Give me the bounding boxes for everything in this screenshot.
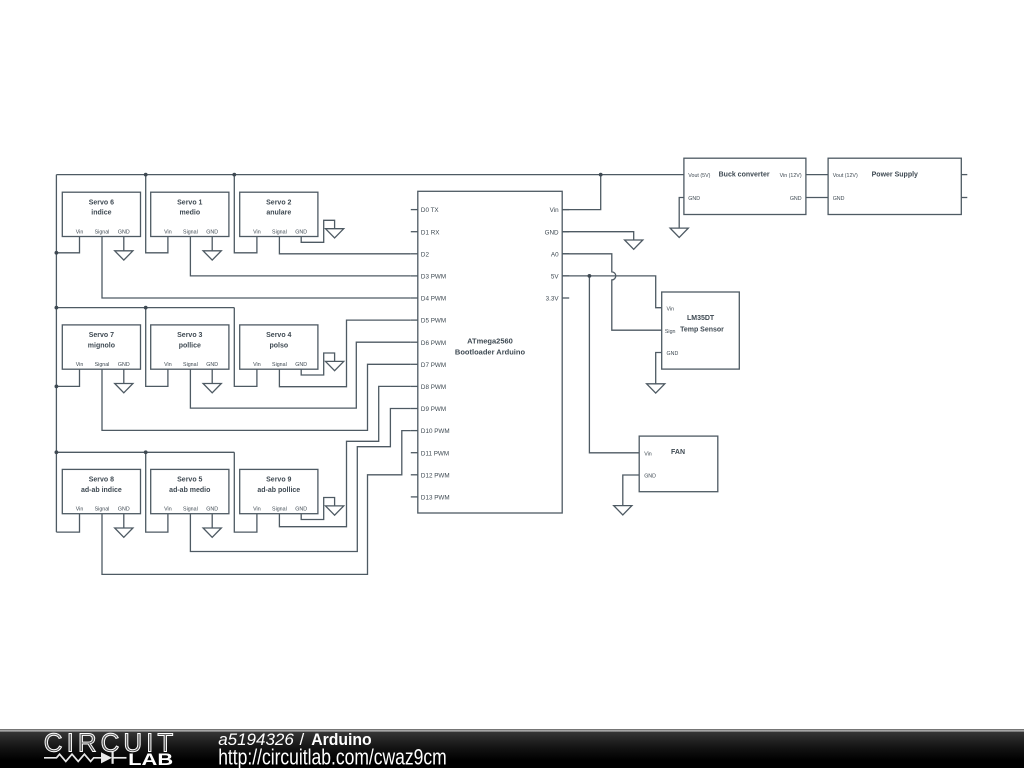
wire Servo4 Signal to D5 bbox=[279, 320, 410, 387]
wire top bus to ATmega Vin bbox=[562, 175, 601, 210]
svg-text:Servo 5: Servo 5 bbox=[177, 477, 202, 484]
svg-text:indice: indice bbox=[91, 210, 111, 217]
svg-text:LAB: LAB bbox=[128, 750, 173, 768]
wire Servo2 Signal to D2 bbox=[279, 237, 410, 254]
wire left 5V rail bbox=[55, 175, 57, 532]
svg-text:FAN: FAN bbox=[671, 449, 685, 456]
svg-text:D0 TX: D0 TX bbox=[421, 207, 440, 214]
svg-text:Signal: Signal bbox=[272, 229, 287, 235]
svg-text:D6 PWM: D6 PWM bbox=[421, 340, 446, 347]
servo SV7 "Servo 7 mignolo" bbox=[62, 325, 140, 369]
svg-text:Vout (5V): Vout (5V) bbox=[688, 173, 710, 179]
svg-text:GND: GND bbox=[833, 196, 845, 202]
svg-text:Signal: Signal bbox=[183, 362, 198, 368]
svg-text:mignolo: mignolo bbox=[88, 342, 115, 349]
svg-text:Servo 8: Servo 8 bbox=[89, 477, 114, 484]
footer title "a5194326 / Arduino" bbox=[218, 730, 372, 749]
svg-text:Servo 2: Servo 2 bbox=[266, 199, 291, 206]
fan M1 FAN bbox=[639, 436, 718, 492]
svg-text:Vin: Vin bbox=[644, 451, 652, 457]
svg-text:D4 PWM: D4 PWM bbox=[421, 296, 446, 303]
svg-text:GND: GND bbox=[206, 229, 218, 235]
wire Servo9 Signal to D8 bbox=[279, 386, 410, 526]
wire Servo5 Signal to D9 bbox=[190, 409, 410, 552]
ground SV6 bbox=[115, 251, 133, 260]
junction top bus / ATmega Vin bbox=[599, 173, 603, 177]
svg-text:GND: GND bbox=[790, 196, 802, 202]
wire row2 Vin bus bbox=[56, 307, 234, 309]
wire SV5 GND stub bbox=[211, 514, 213, 528]
svg-text:GND: GND bbox=[118, 507, 130, 513]
wire Buck GND to PSU GND bbox=[806, 197, 828, 199]
ground SV5 bbox=[203, 528, 221, 537]
svg-text:GND: GND bbox=[545, 229, 559, 236]
svg-text:Vin: Vin bbox=[253, 507, 261, 513]
svg-text:Vin (12V): Vin (12V) bbox=[780, 173, 802, 179]
wire Servo6 Vin to rail bbox=[56, 237, 79, 253]
svg-text:Servo 7: Servo 7 bbox=[89, 332, 114, 339]
wire Servo7 Vin to rail bbox=[56, 369, 79, 386]
servo SV5 "Servo 5 ad-ab medio" bbox=[151, 469, 229, 513]
svg-text:D7 PWM: D7 PWM bbox=[421, 362, 446, 369]
buck converter U3 bbox=[684, 158, 806, 214]
svg-text:Sign: Sign bbox=[665, 329, 676, 335]
svg-text:D3 PWM: D3 PWM bbox=[421, 274, 446, 281]
svg-text:ad-ab pollice: ad-ab pollice bbox=[257, 487, 300, 494]
svg-text:Vin: Vin bbox=[253, 229, 261, 235]
servo SV8 "Servo 8 ad-ab indice" bbox=[62, 469, 140, 513]
wire Buck Vin to PSU Vout bbox=[806, 174, 828, 176]
junction rail / row3 bus bbox=[55, 450, 59, 454]
svg-text:Vin: Vin bbox=[76, 362, 84, 368]
svg-text:http://circuitlab.com/cwaz9cm: http://circuitlab.com/cwaz9cm bbox=[218, 745, 447, 768]
svg-text:Signal: Signal bbox=[183, 507, 198, 513]
wire 5V branch to FAN Vin bbox=[589, 276, 639, 453]
servo SV6 "Servo 6 indice" bbox=[62, 192, 140, 236]
svg-text:Signal: Signal bbox=[183, 229, 198, 235]
svg-text:Signal: Signal bbox=[95, 362, 110, 368]
svg-text:Servo 6: Servo 6 bbox=[89, 199, 114, 206]
svg-text:LM35DT: LM35DT bbox=[687, 315, 715, 322]
svg-text:Bootloader Arduino: Bootloader Arduino bbox=[455, 348, 526, 357]
CircuitLab logo bbox=[44, 727, 174, 769]
servo SV3 "Servo 3 pollice" bbox=[151, 325, 229, 369]
wire Servo6 Signal to D4 bbox=[102, 237, 411, 299]
ground SV2 bbox=[326, 229, 344, 238]
junction rail / row2 bus bbox=[55, 306, 59, 310]
svg-text:Vin: Vin bbox=[76, 229, 84, 235]
wire Servo2 Vin to top bus bbox=[234, 175, 257, 253]
svg-text:Vin: Vin bbox=[76, 507, 84, 513]
ground SV7 bbox=[115, 384, 133, 393]
junction row2 bus / Servo3 Vin bbox=[144, 306, 148, 310]
svg-text:5V: 5V bbox=[551, 274, 560, 281]
svg-text:Servo 9: Servo 9 bbox=[266, 477, 291, 484]
wire Buck GND bbox=[679, 198, 684, 229]
junction rail / Servo6 Vin bbox=[55, 251, 59, 255]
ground LM35 bbox=[647, 384, 665, 393]
svg-text:Vin: Vin bbox=[667, 306, 675, 312]
svg-text:Signal: Signal bbox=[272, 507, 287, 513]
svg-text:D10 PWM: D10 PWM bbox=[421, 428, 450, 435]
ground SV1 bbox=[203, 251, 221, 260]
ground SV9 bbox=[326, 506, 344, 515]
svg-text:Signal: Signal bbox=[272, 362, 287, 368]
svg-text:Vin: Vin bbox=[164, 507, 172, 513]
wire SV2 GND staircase bbox=[301, 220, 334, 242]
svg-text:A0: A0 bbox=[551, 251, 559, 258]
svg-text:Servo 4: Servo 4 bbox=[266, 332, 291, 339]
svg-text:D11 PWM: D11 PWM bbox=[421, 450, 449, 457]
svg-text:ATmega2560: ATmega2560 bbox=[467, 336, 513, 345]
svg-text:GND: GND bbox=[295, 229, 307, 235]
svg-text:Temp Sensor: Temp Sensor bbox=[680, 327, 724, 334]
svg-text:Vin: Vin bbox=[550, 207, 559, 214]
wire Servo7 Signal to D7 bbox=[102, 364, 411, 430]
svg-text:3.3V: 3.3V bbox=[546, 296, 560, 303]
wire Servo3 Signal to D6 bbox=[190, 342, 410, 408]
svg-text:ad-ab indice: ad-ab indice bbox=[81, 487, 122, 494]
power supply PS1 bbox=[828, 158, 967, 214]
servo SV9 "Servo 9 ad-ab pollice" bbox=[240, 469, 318, 513]
junction 5V / FAN branch bbox=[588, 274, 592, 278]
junction top bus / Servo1 Vin bbox=[144, 173, 148, 177]
svg-text:D12 PWM: D12 PWM bbox=[421, 472, 450, 479]
wire LM35 GND bbox=[656, 353, 662, 384]
svg-text:Power Supply: Power Supply bbox=[872, 172, 918, 179]
wire Servo3 Vin to row2 bus bbox=[146, 308, 168, 387]
wire Servo4 Vin to row2 bus bbox=[234, 308, 257, 387]
svg-text:pollice: pollice bbox=[179, 342, 201, 349]
wire A0 to LM35 Sign with hop bbox=[562, 254, 662, 330]
wire Servo1 Signal to D3 bbox=[190, 237, 410, 276]
junction row3 bus / Servo5 Vin bbox=[144, 450, 148, 454]
svg-text:D5 PWM: D5 PWM bbox=[421, 318, 446, 325]
svg-text:GND: GND bbox=[295, 362, 307, 368]
svg-text:GND: GND bbox=[688, 196, 700, 202]
svg-text:D2: D2 bbox=[421, 251, 430, 258]
svg-text:Servo 1: Servo 1 bbox=[177, 199, 202, 206]
svg-text:Vin: Vin bbox=[164, 229, 172, 235]
wire Servo8 Vin to rail end bbox=[56, 514, 79, 532]
ground SV4 bbox=[326, 361, 344, 370]
wire SV6 GND stub bbox=[123, 237, 125, 251]
temp sensor U2 LM35DT bbox=[662, 292, 740, 369]
svg-text:Buck converter: Buck converter bbox=[719, 172, 770, 179]
ATmega2560 U1 Bootloader Arduino bbox=[411, 191, 569, 513]
svg-text:Servo 3: Servo 3 bbox=[177, 332, 202, 339]
wire SV4 GND staircase bbox=[301, 353, 334, 375]
servo SV4 "Servo 4 polso" bbox=[240, 325, 318, 369]
servo SV2 "Servo 2 anulare" bbox=[240, 192, 318, 236]
wire SV8 GND stub bbox=[123, 514, 125, 528]
svg-text:anulare: anulare bbox=[266, 210, 291, 217]
svg-text:GND: GND bbox=[295, 507, 307, 513]
ground SV3 bbox=[203, 384, 221, 393]
junction rail / Servo7 Vin bbox=[55, 385, 59, 389]
wire SV7 GND stub bbox=[123, 369, 125, 383]
wire SV3 GND stub bbox=[211, 369, 213, 383]
wire Servo9 Vin to row3 bus bbox=[234, 452, 257, 532]
ground Buck bbox=[670, 228, 688, 237]
svg-text:GND: GND bbox=[118, 229, 130, 235]
wire 5V to LM35 Vin bbox=[562, 276, 662, 308]
svg-text:Vin: Vin bbox=[253, 362, 261, 368]
svg-text:GND: GND bbox=[206, 362, 218, 368]
svg-text:Signal: Signal bbox=[95, 229, 110, 235]
svg-text:polso: polso bbox=[269, 342, 288, 349]
wire ATmega GND bbox=[562, 232, 634, 240]
junction top bus / Servo2 Vin bbox=[232, 173, 236, 177]
svg-text:Signal: Signal bbox=[95, 507, 110, 513]
svg-text:GND: GND bbox=[644, 474, 656, 480]
wire Servo5 Vin to row3 bus bbox=[146, 452, 168, 532]
svg-text:ad-ab medio: ad-ab medio bbox=[169, 487, 210, 494]
svg-text:D8 PWM: D8 PWM bbox=[421, 384, 446, 391]
svg-text:GND: GND bbox=[206, 507, 218, 513]
ground FAN bbox=[614, 506, 632, 515]
wire Servo8 Signal to D10 bbox=[102, 431, 411, 575]
wire row3 Vin bus bbox=[56, 451, 234, 453]
svg-text:Vin: Vin bbox=[164, 362, 172, 368]
wire 5V top bus bbox=[56, 174, 684, 176]
svg-text:GND: GND bbox=[118, 362, 130, 368]
svg-text:GND: GND bbox=[667, 351, 679, 357]
footer bar bbox=[0, 729, 1024, 768]
svg-text:D13 PWM: D13 PWM bbox=[421, 495, 450, 502]
svg-text:D1 RX: D1 RX bbox=[421, 229, 440, 236]
wire SV9 GND staircase bbox=[301, 498, 334, 520]
ground ATmega GND bbox=[625, 240, 643, 249]
wire SV1 GND stub bbox=[211, 237, 213, 251]
wire Servo1 Vin to top bus bbox=[146, 175, 168, 253]
svg-text:Vout (12V): Vout (12V) bbox=[833, 173, 858, 179]
svg-text:D9 PWM: D9 PWM bbox=[421, 406, 446, 413]
ground SV8 bbox=[115, 528, 133, 537]
svg-text:medio: medio bbox=[179, 210, 200, 217]
servo SV1 "Servo 1 medio" bbox=[151, 192, 229, 236]
wire FAN GND bbox=[623, 475, 639, 506]
